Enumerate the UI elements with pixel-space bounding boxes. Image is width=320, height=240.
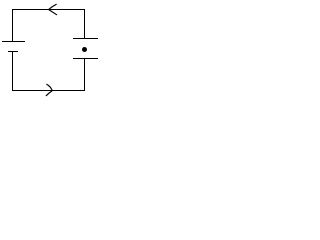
wire: bottom horizontal bbox=[12, 90, 85, 92]
wire: right vertical lower segment bbox=[84, 58, 86, 91]
lamp dot bbox=[82, 47, 87, 52]
lamp/capacitor top plate bbox=[73, 38, 98, 40]
battery B1 short plate (negative) bbox=[8, 51, 18, 53]
wire: left vertical upper segment bbox=[12, 9, 14, 42]
current arrow on bottom wire (open head, pointing right) bbox=[46, 84, 52, 96]
wire: top horizontal bbox=[12, 9, 85, 11]
wire: right vertical upper segment bbox=[84, 9, 86, 39]
wire: left vertical lower segment bbox=[12, 51, 14, 91]
current arrow on top wire (open head, pointing left) bbox=[49, 4, 57, 15]
battery B1 long plate (positive) bbox=[2, 41, 25, 43]
lamp/capacitor bottom plate bbox=[73, 58, 98, 60]
